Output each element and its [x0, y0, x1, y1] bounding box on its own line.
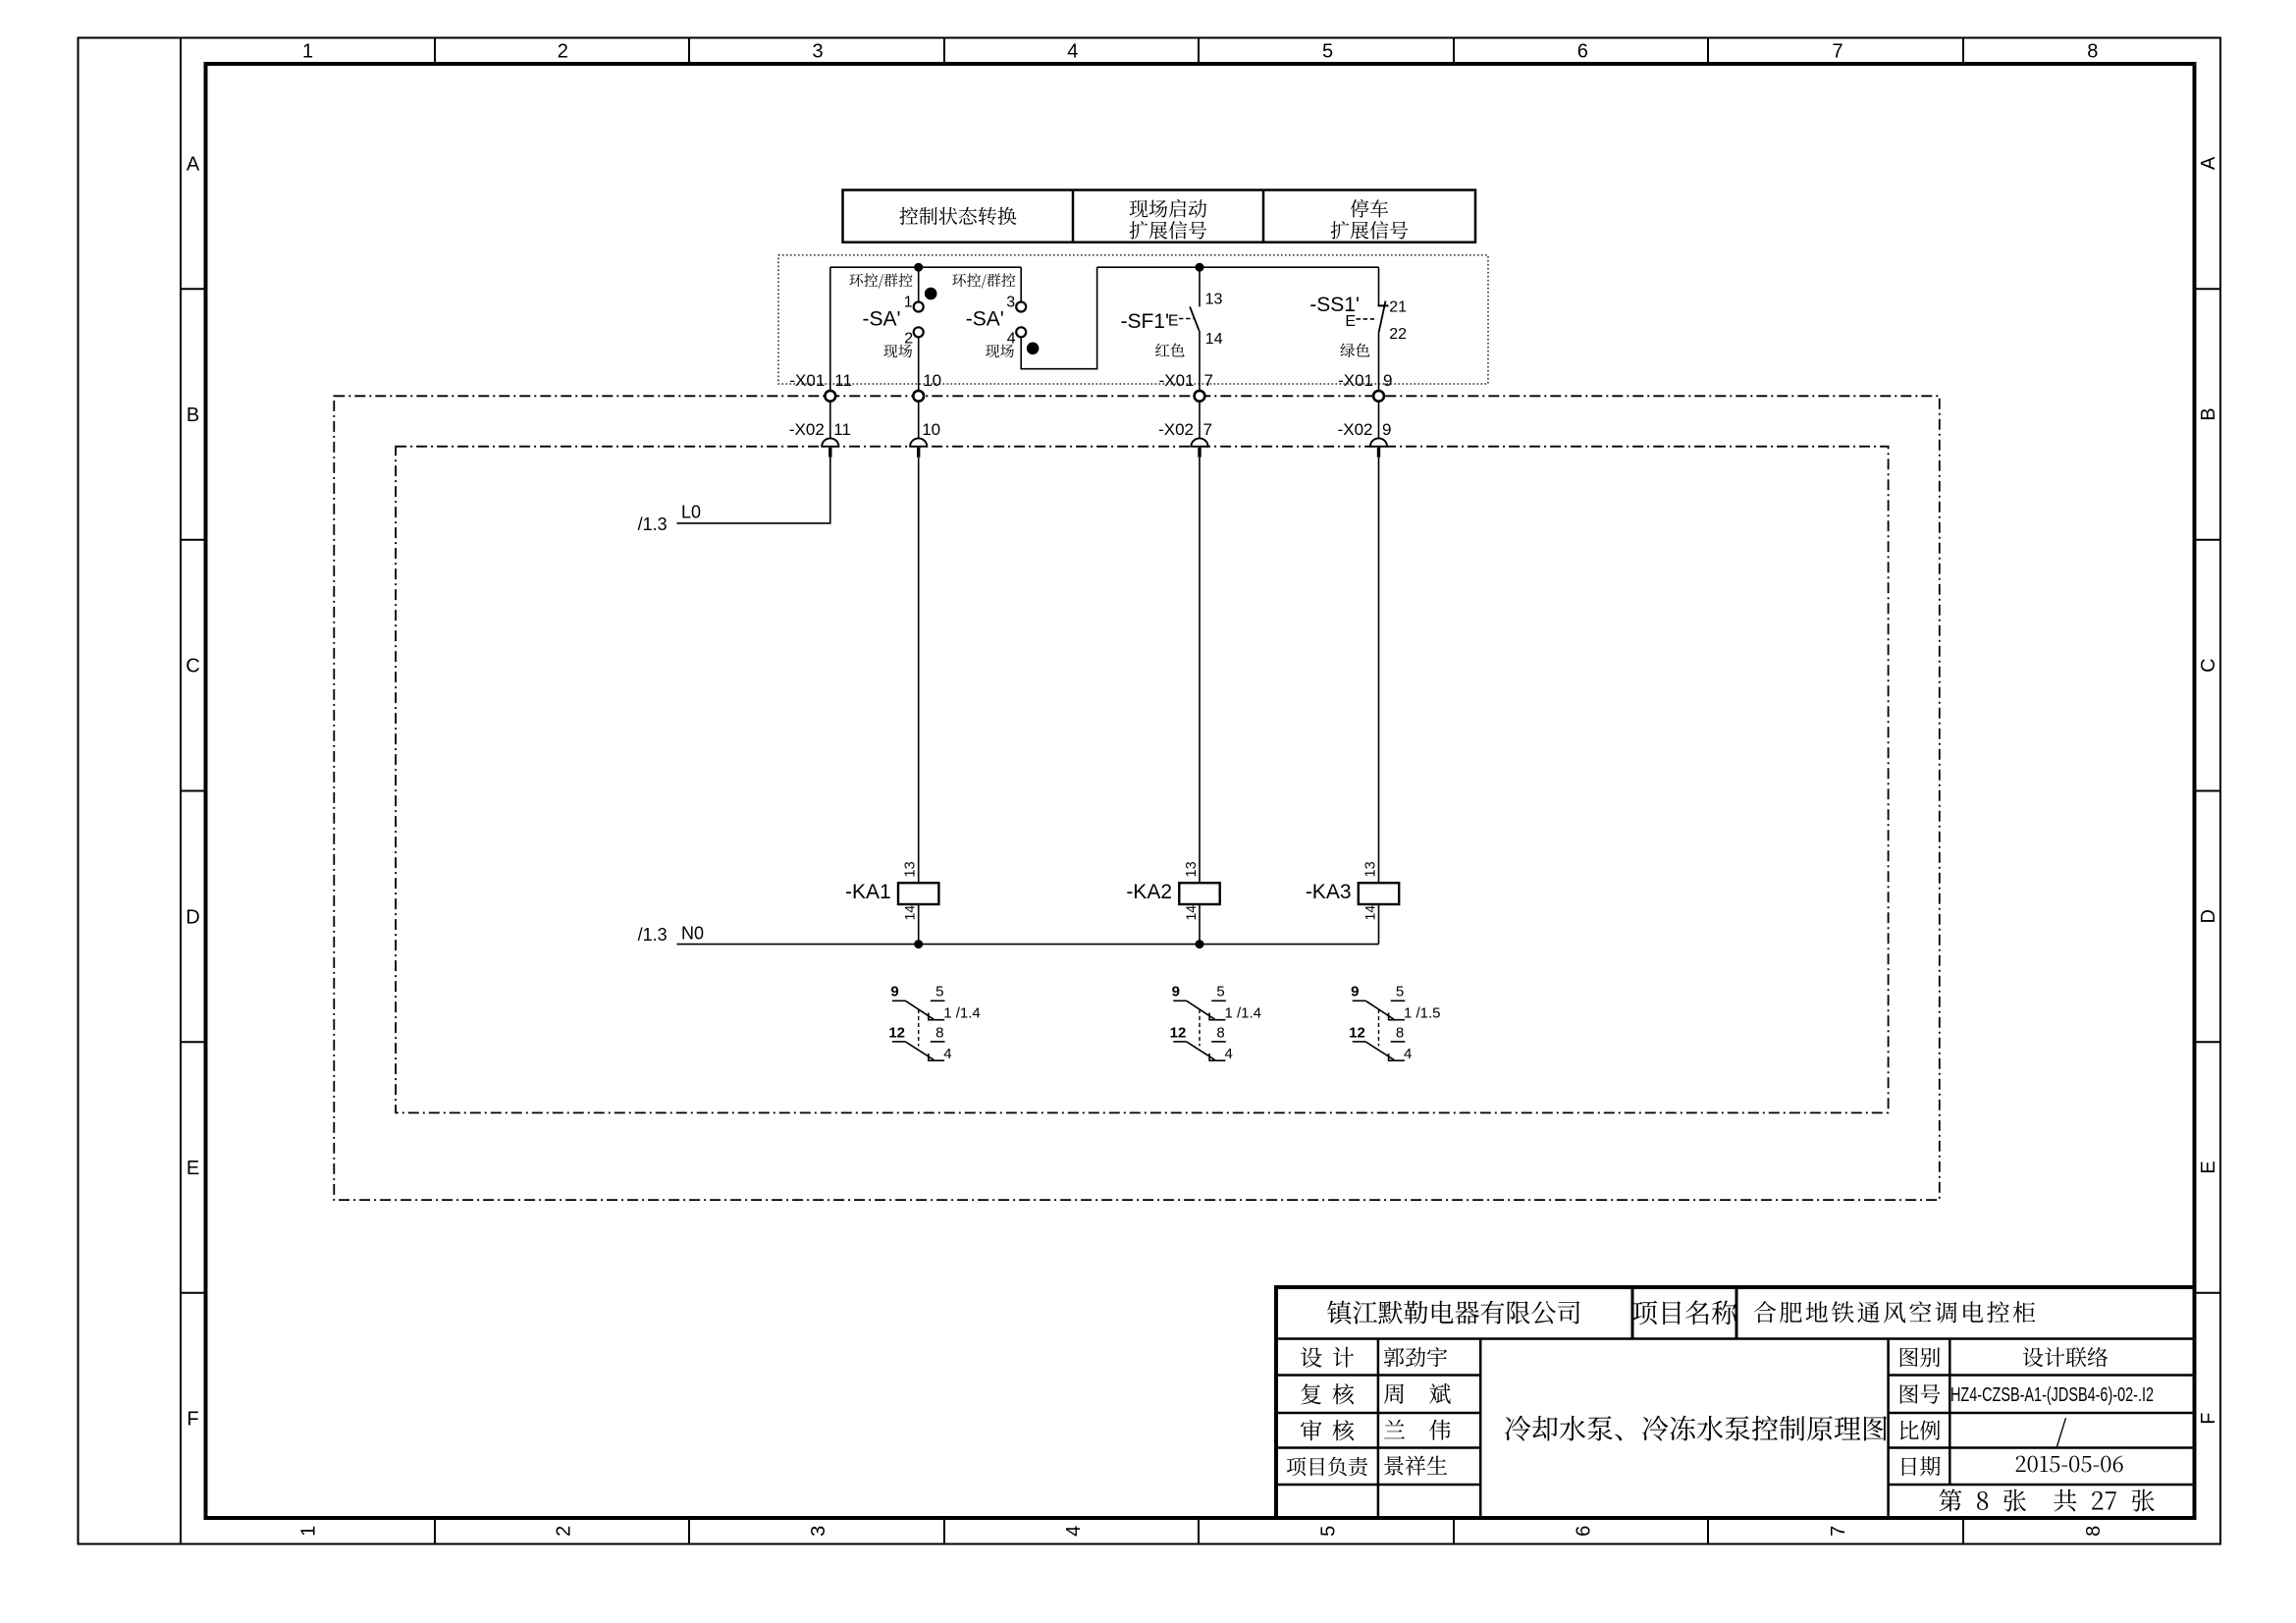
svg-text:7: 7	[1204, 371, 1213, 390]
svg-text:1 /1.4: 1 /1.4	[1225, 1005, 1262, 1022]
svg-text:9: 9	[1382, 420, 1391, 439]
svg-text:11: 11	[834, 371, 852, 390]
svg-text:4: 4	[1063, 1526, 1085, 1537]
svg-text:5: 5	[1216, 984, 1224, 1001]
pushbutton -SF1" NO contact	[1190, 306, 1200, 330]
svg-text:7: 7	[1833, 41, 1843, 63]
svg-text:B: B	[187, 405, 199, 426]
wire: W1 drop to terminal X01:11	[829, 267, 831, 391]
svg-text:14: 14	[902, 905, 918, 921]
svg-text:-KA2: -KA2	[1126, 881, 1172, 903]
wire: top bus left segment	[830, 266, 1021, 268]
contact cross-reference table for relay at x=935	[888, 984, 980, 1063]
node: junction at SA pole1 top	[914, 263, 923, 272]
svg-text:L0: L0	[681, 503, 701, 522]
svg-text:1 /1.5: 1 /1.5	[1404, 1005, 1441, 1022]
svg-text:21: 21	[1389, 299, 1407, 316]
terminal -X01:9	[1373, 391, 1384, 402]
svg-text:13: 13	[1205, 291, 1223, 307]
svg-text:1: 1	[904, 295, 913, 311]
svg-text:-SS1': -SS1'	[1309, 294, 1360, 316]
wire: SA pole1 lower lead to X01:10	[918, 337, 920, 391]
selector switch SA pole 2 label	[952, 273, 1015, 288]
svg-text:1: 1	[298, 1526, 320, 1537]
svg-text:5: 5	[1322, 41, 1333, 63]
svg-text:1: 1	[302, 41, 313, 63]
relay coil -KA3	[1359, 883, 1399, 904]
wire: X02:7 down to coil KA2	[1199, 458, 1201, 884]
svg-text:14: 14	[1362, 905, 1378, 921]
svg-text:4: 4	[1067, 41, 1078, 63]
svg-text:/1.3: /1.3	[638, 925, 667, 945]
svg-text:-X01: -X01	[1338, 371, 1373, 390]
svg-text:E: E	[2198, 1161, 2219, 1173]
svg-text:2: 2	[904, 331, 913, 348]
svg-text:5: 5	[935, 984, 943, 1001]
wire: SS1 lower lead to X01:9	[1378, 333, 1380, 391]
contact cross-reference table for relay at x=1222	[1170, 984, 1261, 1063]
svg-text:C: C	[186, 656, 199, 677]
svg-text:D: D	[186, 906, 199, 928]
svg-text:4: 4	[1007, 331, 1016, 348]
wire: SA pole1 upper lead	[918, 267, 920, 301]
connector -X02:7	[1191, 438, 1207, 446]
svg-text:12: 12	[1349, 1024, 1365, 1041]
svg-text:-KA3: -KA3	[1306, 881, 1352, 903]
terminal -X01:10	[913, 391, 924, 402]
svg-text:HZ4-CZSB-A1-(JDSB4-6)-02-.I2: HZ4-CZSB-A1-(JDSB4-6)-02-.I2	[1950, 1384, 2154, 1406]
pushbutton -SS1" NC contact	[1378, 304, 1389, 306]
wire: SF1 lower lead to X01:7	[1199, 331, 1201, 391]
connector -X02:10	[910, 438, 927, 446]
svg-text:4: 4	[943, 1046, 951, 1062]
svg-text:-SF1': -SF1'	[1120, 310, 1169, 333]
svg-text:9: 9	[1383, 371, 1392, 390]
svg-text:4: 4	[1404, 1046, 1412, 1062]
svg-text:-X02: -X02	[789, 420, 825, 439]
node: junction KA1-N0	[914, 940, 923, 948]
svg-text:3: 3	[813, 41, 824, 63]
svg-text:13: 13	[1184, 861, 1200, 877]
svg-text:13: 13	[1363, 861, 1379, 877]
svg-text:C: C	[2198, 658, 2219, 672]
pushbutton SF1 color label	[1155, 344, 1185, 357]
dotted field-device boundary box	[778, 255, 1488, 384]
svg-text:E: E	[187, 1158, 199, 1179]
svg-text:5: 5	[1318, 1526, 1340, 1537]
connector -X02:11	[822, 438, 838, 446]
svg-text:13: 13	[903, 861, 919, 877]
svg-text:6: 6	[1577, 41, 1588, 63]
svg-text:10: 10	[923, 371, 941, 390]
terminal -X01:7	[1195, 391, 1205, 402]
svg-text:2: 2	[553, 1526, 574, 1537]
contact cross-reference table for relay at x=1404	[1349, 984, 1440, 1063]
svg-text:F: F	[2198, 1413, 2219, 1425]
wire: L0 feed from /1.3	[677, 458, 830, 523]
svg-text:A: A	[187, 153, 200, 175]
wire: SF1 upper lead	[1199, 267, 1201, 306]
svg-text:7: 7	[1203, 420, 1212, 439]
selector switch SA position dot (pole1)	[925, 288, 937, 300]
svg-text:F: F	[187, 1409, 198, 1431]
title block	[1274, 1287, 2195, 1518]
svg-text:1 /1.4: 1 /1.4	[943, 1005, 981, 1022]
svg-text:/1.3: /1.3	[638, 514, 667, 534]
svg-text:-X02: -X02	[1338, 420, 1373, 439]
svg-text:9: 9	[1172, 984, 1180, 1001]
selector switch SA position dot (pole2)	[1027, 343, 1040, 355]
svg-text:D: D	[2198, 909, 2219, 923]
svg-text:8: 8	[2083, 1526, 2105, 1537]
svg-text:-X01: -X01	[1159, 371, 1195, 390]
svg-text:-X02: -X02	[1158, 420, 1194, 439]
svg-text:14: 14	[1183, 905, 1199, 921]
svg-text:6: 6	[1573, 1526, 1594, 1537]
svg-text:8: 8	[2087, 41, 2098, 63]
svg-text:-X01: -X01	[789, 371, 825, 390]
svg-text:22: 22	[1389, 326, 1407, 343]
signal function header box	[843, 190, 1476, 243]
svg-text:14: 14	[1205, 331, 1223, 348]
connector -X02:9	[1370, 438, 1387, 446]
selector switch SA pole 1 (-SA" contacts 1-2)	[914, 302, 924, 312]
wire: N0 bus from /1.3	[677, 944, 1379, 946]
node: junction at SF1 top	[1196, 263, 1204, 272]
wire: top bus right segment	[1097, 266, 1379, 268]
terminal -X01:11	[825, 391, 835, 402]
svg-text:-SA': -SA'	[966, 308, 1004, 331]
wire: SS1 upper lead	[1378, 267, 1380, 305]
svg-text:10: 10	[922, 420, 940, 439]
svg-text:9: 9	[890, 984, 898, 1001]
svg-text:5: 5	[1396, 984, 1404, 1001]
svg-text:N0: N0	[681, 924, 704, 944]
svg-text:2: 2	[558, 41, 568, 63]
pushbutton SS1 color label	[1340, 344, 1369, 357]
svg-text:12: 12	[1170, 1024, 1187, 1041]
node: junction KA2-N0	[1196, 940, 1204, 948]
relay coil -KA1	[898, 883, 938, 904]
dash-dot cabinet boundary (outer)	[334, 396, 1940, 1200]
selector switch SA pole 2 (-SA" contacts 3-4)	[1016, 302, 1026, 312]
svg-text:8: 8	[1216, 1024, 1224, 1041]
selector switch SA pole 1 label	[849, 273, 912, 288]
wire: X02:9 down to coil KA3	[1378, 458, 1380, 884]
wire: SA pole2 lower lead, jog to right riser	[1021, 267, 1096, 369]
dash-dot cabinet boundary (inner)	[396, 447, 1889, 1113]
svg-text:7: 7	[1828, 1526, 1849, 1537]
wire: X02:10 down to coil KA1	[918, 458, 920, 884]
svg-text:8: 8	[935, 1024, 943, 1041]
svg-text:A: A	[2198, 156, 2219, 170]
svg-text:12: 12	[888, 1024, 905, 1041]
wire: SA pole2 upper lead	[1020, 267, 1022, 301]
svg-text:3: 3	[808, 1526, 829, 1537]
svg-text:4: 4	[1225, 1046, 1233, 1062]
svg-text:E: E	[1168, 313, 1179, 330]
svg-text:-KA1: -KA1	[845, 881, 891, 903]
svg-text:11: 11	[833, 420, 851, 439]
svg-text:-SA': -SA'	[862, 308, 900, 331]
svg-text:B: B	[2198, 407, 2219, 420]
svg-text:3: 3	[1006, 295, 1015, 311]
wire: X01-X02 interconnects	[829, 402, 831, 439]
relay coil -KA2	[1179, 883, 1219, 904]
svg-text:9: 9	[1351, 984, 1359, 1001]
svg-text:8: 8	[1396, 1024, 1404, 1041]
